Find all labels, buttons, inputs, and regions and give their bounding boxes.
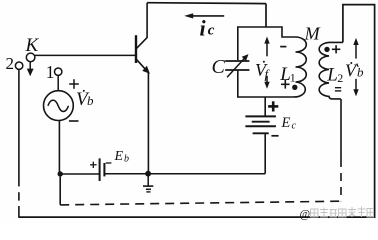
wire: terminal 1 to source <box>57 76 59 91</box>
label: - of Eb <box>106 162 112 164</box>
arrow: ic (collector current) <box>184 13 224 18</box>
wire: left edge from terminal 2 (partly dashed) <box>18 69 20 218</box>
label: - of Ec <box>271 135 278 137</box>
svg-text:b: b <box>87 93 94 108</box>
label: Eb <box>114 149 130 165</box>
switch K <box>25 35 40 76</box>
arrow: Vb' up/down across output <box>353 38 358 97</box>
capacitor C (variable) <box>225 54 249 77</box>
svg-text:b: b <box>357 65 364 80</box>
label: = at L2 bottom <box>335 88 341 91</box>
wire: source bottom down <box>58 121 60 174</box>
battery Eb <box>100 158 105 181</box>
inductor L2 <box>319 42 343 99</box>
svg-text:@: @ <box>300 209 311 221</box>
inductor L1 <box>294 37 307 97</box>
node: source bottom junction <box>58 171 63 176</box>
tank circuit outline: left edge, top edge, step, bottom edge <box>238 27 296 60</box>
watermark <box>300 207 374 221</box>
wire: bottom rail right (Eb to Ec bottom) <box>104 173 265 175</box>
label: Vf <box>255 60 271 82</box>
phase dot of L1 <box>292 85 297 90</box>
terminal 2 <box>6 54 23 73</box>
svg-text:1: 1 <box>290 71 296 85</box>
svg-text:E: E <box>281 115 291 131</box>
label: L2 <box>326 65 343 86</box>
wire: dashed feedback return (bottom) <box>60 177 342 205</box>
wire: bottom rail left (to Eb) <box>60 173 99 175</box>
terminal 1 <box>46 62 62 82</box>
wire: top collector rail <box>147 2 266 5</box>
svg-text:M: M <box>304 24 321 44</box>
arrow: Vf up/down across tank <box>264 37 269 89</box>
svg-text:c: c <box>292 121 297 132</box>
wire: L2 bottom return (partly dashed) <box>340 99 342 201</box>
wire: Ec bottom down to rail <box>264 133 266 173</box>
label: Ec <box>281 115 297 132</box>
label: + at L1 bottom <box>281 80 290 89</box>
ground <box>143 177 153 192</box>
svg-text:1: 1 <box>46 62 55 82</box>
wire: feed down to tank top <box>265 4 267 27</box>
wire: emitter down to ground rail <box>147 73 149 174</box>
svg-text:i: i <box>200 16 207 41</box>
label: Vb (source voltage) <box>76 89 94 110</box>
svg-text:L: L <box>326 65 338 86</box>
transistor Q1 (NPN) <box>136 3 150 74</box>
label: - of source <box>69 120 79 122</box>
label: - at L1 top <box>280 46 286 48</box>
svg-text:2: 2 <box>337 71 343 85</box>
svg-text:b: b <box>124 154 129 165</box>
svg-text:2: 2 <box>6 54 15 73</box>
svg-text:C: C <box>212 56 226 78</box>
phase dot of L2 <box>324 47 329 52</box>
svg-text:E: E <box>114 149 124 164</box>
wire: base <box>35 54 135 56</box>
label: ic <box>200 16 215 41</box>
label: + at L2 top <box>332 45 340 53</box>
battery Ec <box>245 116 276 133</box>
label: + of source <box>69 79 79 89</box>
label: L1 <box>279 64 296 85</box>
label: + of Ec (bold) <box>268 101 278 111</box>
label: Vb' <box>345 61 364 81</box>
svg-text:f: f <box>265 67 271 82</box>
AC source Vb <box>44 91 74 121</box>
node: emitter/ground junction <box>145 171 151 177</box>
wire: tank bottom to Ec <box>264 97 266 116</box>
label: + of Eb <box>90 162 97 168</box>
svg-text:c: c <box>208 23 215 39</box>
